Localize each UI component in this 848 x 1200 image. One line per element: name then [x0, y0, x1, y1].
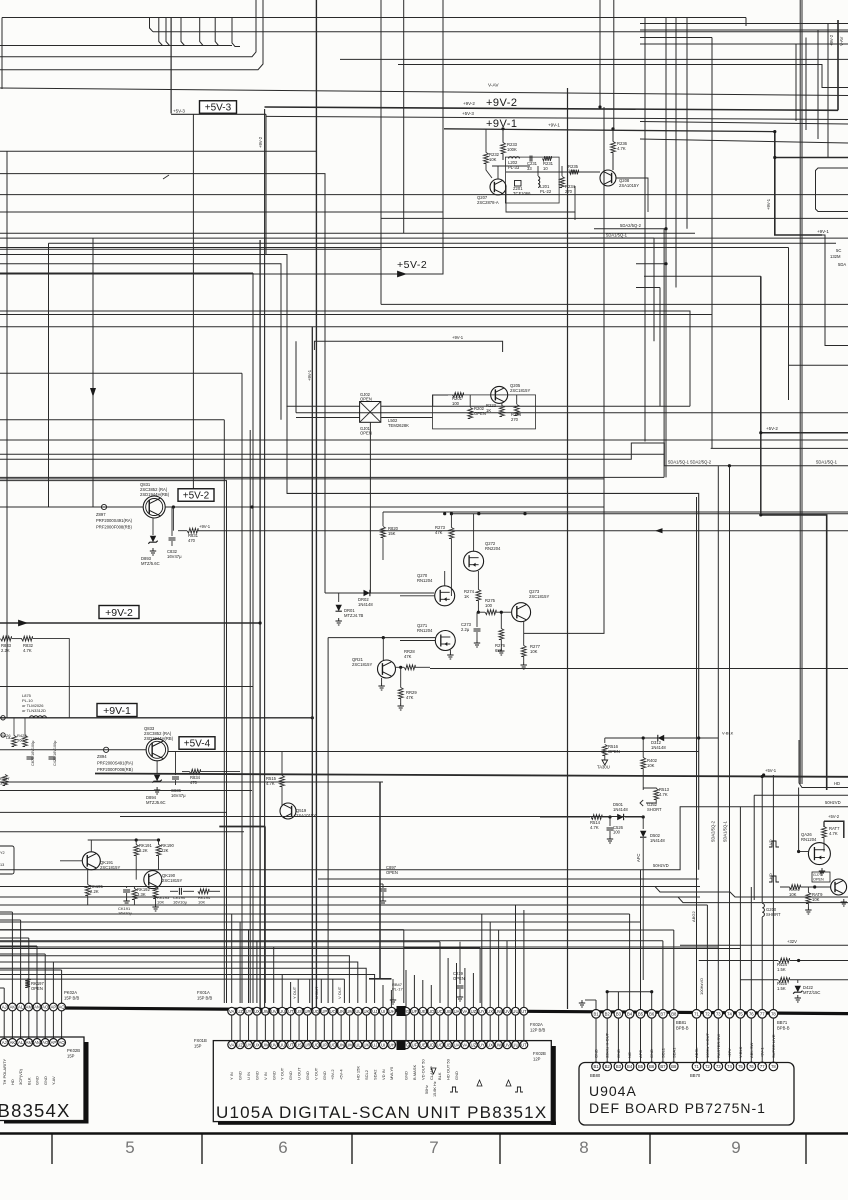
wire feed C [0, 929, 674, 931]
svg-text:71: 71 [694, 1012, 699, 1017]
svg-text:+32V: +32V [787, 939, 797, 944]
svg-text:+9V-2: +9V-2 [829, 34, 834, 46]
svg-text:4.7K: 4.7K [829, 831, 838, 836]
wire topR3 [640, 37, 712, 39]
svg-text:UY: UY [479, 1043, 485, 1048]
svg-text:UL: UL [355, 1043, 361, 1048]
svg-text:100: 100 [485, 603, 493, 608]
vertical [403, 930, 405, 1003]
resistor R424 [779, 958, 790, 963]
resistor RK190 [156, 845, 161, 856]
svg-text:UK: UK [364, 1009, 370, 1014]
svg-text:SCL1: SCL1 [660, 1047, 665, 1058]
wire top3 [340, 58, 848, 60]
svg-text:B2: B2 [605, 1012, 611, 1017]
svg-text:OPEN: OPEN [386, 870, 398, 875]
svg-text:3.9K: 3.9K [0, 781, 9, 786]
svg-text:UR: UR [304, 1009, 310, 1014]
svg-text:UY: UY [246, 1009, 252, 1014]
resistor R425 [779, 977, 790, 982]
svg-text:1N4148: 1N4148 [650, 838, 665, 843]
vertical feed [498, 930, 500, 1007]
svg-text:DEF BOARD PB7275N-1: DEF BOARD PB7275N-1 [589, 1100, 766, 1116]
resistor R516 [602, 745, 607, 756]
resistor R224 [514, 405, 519, 416]
svg-text:V-AV: V-AV [839, 37, 844, 46]
svg-text:UX: UX [487, 1009, 493, 1014]
transistor QA27 [831, 879, 847, 895]
svg-text:16V10μ: 16V10μ [173, 900, 188, 905]
wire [286, 405, 359, 407]
svg-text:U904A: U904A [589, 1083, 637, 1099]
wire [383, 511, 848, 513]
svg-text:HD OUT 50: HD OUT 50 [446, 1058, 451, 1080]
svg-text:Y OUT: Y OUT [292, 986, 297, 999]
box Q205 [433, 395, 536, 429]
+9V-2 box label [99, 606, 139, 619]
svg-text:HD: HD [834, 781, 840, 786]
svg-text:or TLN3312D: or TLN3312D [22, 708, 46, 713]
svg-text:AQ: AQ [59, 1040, 66, 1045]
VD pulse [769, 841, 779, 847]
svg-text:1N4148: 1N4148 [613, 807, 628, 812]
svg-text:SDA1: SDA1 [671, 1047, 676, 1058]
svg-text:VA: VA [229, 1043, 234, 1048]
wire hook up [0, 0, 256, 57]
osc wires [497, 166, 499, 179]
diode D502 [642, 817, 644, 829]
wire [0, 781, 383, 783]
svg-text:+5V-2: +5V-2 [828, 814, 840, 819]
vertical bb feed [673, 930, 675, 1009]
svg-text:AO: AO [42, 1005, 49, 1010]
svg-text:72: 72 [705, 1012, 710, 1017]
GJ02 GJ01 jumper block [360, 402, 381, 423]
svg-text:UR: UR [304, 1043, 310, 1048]
svg-text:UL: UL [355, 1009, 361, 1014]
svg-text:1.5K: 1.5K [777, 986, 786, 991]
wires right mid [594, 228, 666, 230]
svg-text:UD: UD [428, 1043, 434, 1048]
svg-text:AP: AP [51, 1040, 57, 1045]
svg-text:+9V-2: +9V-2 [330, 1069, 335, 1080]
svg-text:UW: UW [495, 1043, 502, 1048]
connector PK02A row [0, 1003, 8, 1011]
svg-text:GND: GND [305, 1071, 310, 1080]
svg-text:GND: GND [616, 1049, 621, 1058]
wire D312 [605, 737, 719, 739]
diode DR02 [364, 590, 370, 596]
svg-text:UT: UT [288, 1009, 294, 1014]
vertical bb feed [629, 914, 631, 1009]
vertical [252, 273, 254, 1003]
svg-text:UM: UM [346, 1043, 353, 1048]
resistor R231 [543, 156, 552, 161]
wire corner [0, 481, 227, 1003]
svg-text:V IN: V IN [263, 1072, 268, 1080]
wire [400, 595, 435, 597]
svg-text:16V10μ: 16V10μ [118, 911, 133, 916]
svg-text:B1: B1 [593, 1012, 599, 1017]
board box U904A [579, 1063, 794, 1126]
resistor R223 [500, 406, 505, 417]
ruler tick [201, 1134, 203, 1165]
rounded box right [816, 168, 848, 212]
svg-text:132M: 132M [830, 254, 841, 259]
svg-text:UK: UK [364, 1043, 370, 1048]
svg-text:C876 16V100μ: C876 16V100μ [31, 741, 35, 766]
svg-text:UI: UI [381, 1043, 385, 1048]
svg-text:AFC: AFC [638, 1050, 643, 1058]
svg-text:GND: GND [288, 1071, 293, 1080]
svg-text:16V47μ: 16V47μ [167, 554, 182, 559]
svg-text:AP: AP [51, 1005, 57, 1010]
svg-text:8.2K: 8.2K [139, 848, 148, 853]
svg-text:2SC1815Y: 2SC1815Y [162, 878, 182, 883]
svg-text:1K: 1K [464, 594, 469, 599]
diode D894 [156, 761, 158, 774]
resistor R233 [501, 143, 506, 154]
svg-text:Y-AV: Y-AV [51, 1076, 56, 1085]
svg-text:B5: B5 [638, 1012, 644, 1017]
capacitor C832 [171, 507, 173, 536]
+5V-3 vertical [170, 18, 172, 114]
svg-text:10K: 10K [789, 892, 797, 897]
wire [0, 478, 604, 480]
svg-text:76: 76 [749, 1064, 754, 1069]
svg-text:RN1204: RN1204 [417, 578, 433, 583]
+5V-2 branch [824, 821, 844, 838]
svg-text:15P: 15P [194, 1044, 202, 1049]
resistor RK193 [153, 888, 158, 899]
svg-text:UC: UC [437, 1043, 443, 1048]
wire feed B [0, 921, 641, 923]
svg-text:PRF2000S491(RA): PRF2000S491(RA) [96, 518, 133, 523]
wire [49, 242, 837, 244]
svg-text:UP: UP [321, 1043, 327, 1048]
stub hook [232, 18, 240, 47]
svg-text:2SC1815Y: 2SC1815Y [100, 865, 120, 870]
wire Q833 rail [168, 751, 699, 753]
svg-text:2SA1015Y: 2SA1015Y [619, 183, 639, 188]
transistor Q205 [491, 386, 508, 403]
ground Q271 [449, 652, 451, 655]
transistor QK191 [82, 852, 100, 870]
svg-text:UV: UV [504, 1043, 510, 1048]
wire QK rail [88, 839, 159, 841]
wire jog A [0, 887, 848, 898]
resistor R273 [449, 528, 454, 539]
svg-text:5DA2/5Q-2: 5DA2/5Q-2 [711, 820, 716, 842]
svg-text:Z894: Z894 [97, 754, 107, 759]
svg-text:BB70: BB70 [690, 1073, 701, 1078]
resistor R426 [12, 736, 17, 747]
svg-text:2SC1815Y: 2SC1815Y [352, 662, 372, 667]
svg-text:FX01B: FX01B [194, 1038, 207, 1043]
svg-text:AJ: AJ [2, 1005, 7, 1010]
svg-text:HD 15K: HD 15K [356, 1066, 361, 1080]
svg-text:78: 78 [771, 1012, 776, 1017]
svg-text:HD: HD [10, 1079, 15, 1085]
vertical [439, 942, 441, 1003]
wire [0, 419, 224, 421]
svg-text:MTZ/15C: MTZ/15C [803, 990, 820, 995]
resistor RAT4 [789, 885, 800, 890]
+9V-2 rail [265, 107, 839, 110]
svg-text:UP: UP [321, 1009, 327, 1014]
svg-text:BLK: BLK [437, 1072, 442, 1080]
svg-text:4.7K: 4.7K [23, 648, 32, 653]
svg-text:BPB-B: BPB-B [676, 1026, 689, 1031]
vertical feed [481, 914, 483, 1007]
resistor R277 [521, 646, 526, 657]
svg-text:100HzVD: 100HzVD [699, 978, 704, 995]
svg-text:UZ: UZ [237, 1009, 243, 1014]
svg-text:5DA2/5Q-2: 5DA2/5Q-2 [620, 223, 642, 228]
vertical bb70 feed [696, 497, 698, 1009]
+32V wire [680, 944, 848, 946]
svg-text:5C: 5C [836, 248, 841, 253]
svg-text:AL: AL [18, 1040, 24, 1045]
resistor RK192 [132, 889, 137, 900]
svg-text:UB: UB [445, 1009, 451, 1014]
svg-text:74: 74 [727, 1064, 732, 1069]
svg-text:72: 72 [705, 1064, 710, 1069]
transistor Q271 [435, 631, 455, 651]
svg-text:2.2K: 2.2K [90, 889, 99, 894]
svg-text:NC: NC [627, 1052, 632, 1058]
svg-text:75: 75 [738, 1064, 743, 1069]
vertical feed [489, 922, 491, 1007]
wire [0, 975, 375, 1004]
wire down from +5V-3 [265, 114, 267, 255]
svg-text:PB8354X: PB8354X [0, 1100, 71, 1121]
svg-text:US: US [296, 1009, 302, 1014]
svg-text:VD IN: VD IN [381, 1069, 386, 1080]
svg-text:+9V-2: +9V-2 [463, 101, 475, 106]
svg-text:73: 73 [716, 1064, 721, 1069]
svg-text:10K: 10K [812, 897, 820, 902]
svg-text:10K: 10K [530, 649, 538, 654]
ground QR21 [381, 683, 383, 686]
stub hook [166, 18, 170, 46]
svg-text:GND: GND [43, 1076, 48, 1085]
capacitor C273 [476, 612, 478, 627]
wire bundle line [0, 45, 232, 47]
svg-text:10K: 10K [157, 900, 164, 905]
svg-text:+9V-1: +9V-1 [766, 198, 771, 210]
svg-text:RN1204: RN1204 [417, 628, 433, 633]
svg-text:2SC2878-A: 2SC2878-A [477, 200, 499, 205]
+9V-1 rail [0, 717, 312, 719]
svg-text:VA: VA [462, 1009, 467, 1014]
svg-text:V OUT: V OUT [337, 986, 342, 999]
svg-text:100: 100 [452, 401, 460, 406]
GJ52 jumper [640, 800, 643, 806]
svg-text:5: 5 [125, 1138, 134, 1157]
wire [0, 232, 695, 234]
wire [0, 211, 443, 213]
wire Q273 out [524, 107, 604, 633]
svg-text:6: 6 [278, 1138, 287, 1157]
resistor RAT9 [806, 893, 811, 904]
stub hook [150, 18, 154, 32]
svg-text:FX02B: FX02B [533, 1051, 546, 1056]
+5V-3 wire [171, 113, 266, 115]
svg-text:MTZJ5.6C: MTZJ5.6C [146, 800, 166, 805]
Z894 [104, 747, 109, 752]
vertical [249, 430, 251, 1003]
svg-text:AK: AK [10, 1005, 16, 1010]
svg-text:3CP(VD): 3CP(VD) [18, 1068, 23, 1085]
svg-text:VD: VD [768, 839, 773, 845]
svg-text:ABCL: ABCL [694, 1047, 699, 1058]
svg-text:UV: UV [271, 1009, 277, 1014]
resistor R235 [570, 170, 579, 175]
resistor R833 [1, 636, 12, 641]
wire [381, 405, 690, 407]
wire [0, 968, 366, 1003]
wire [433, 395, 448, 406]
stub hook [215, 18, 218, 46]
connector FX01B row [231, 1015, 233, 1041]
thick bus main [65, 1008, 848, 1014]
svg-text:UD: UD [428, 1009, 434, 1014]
resistor R832 [22, 636, 33, 641]
wire [296, 412, 848, 414]
svg-text:V OUT: V OUT [313, 1067, 318, 1080]
svg-text:100: 100 [568, 169, 576, 174]
capacitor CK190 [178, 888, 180, 895]
vertical [192, 114, 194, 489]
connector PK02B row [3, 1011, 5, 1038]
svg-text:OPEN: OPEN [474, 411, 486, 416]
svg-text:OPEN: OPEN [813, 877, 824, 881]
svg-text:UT: UT [521, 1043, 527, 1048]
wire long [430, 668, 848, 670]
wire [150, 896, 700, 898]
wire topR1 [640, 23, 848, 25]
svg-text:PRF2000F008(RB): PRF2000F008(RB) [97, 767, 133, 772]
svg-text:3.3K: 3.3K [137, 892, 146, 897]
svg-text:UX: UX [487, 1043, 493, 1048]
resistor R236 [611, 142, 616, 153]
svg-text:50HzVD: 50HzVD [825, 800, 841, 805]
svg-text:GND: GND [271, 1071, 276, 1080]
wire QK191 base [60, 860, 83, 862]
svg-text:TCF1066: TCF1066 [513, 191, 531, 196]
resistor RAT7 [822, 827, 827, 838]
svg-text:UA: UA [454, 1043, 460, 1048]
svg-text:15K: 15K [388, 531, 396, 536]
svg-text:UE: UE [420, 1009, 426, 1014]
wire [0, 372, 242, 374]
svg-text:UC: UC [437, 1009, 443, 1014]
svg-text:V-AV: V-AV [488, 83, 499, 89]
wire [325, 592, 434, 594]
svg-text:UT: UT [288, 1043, 294, 1048]
vertical [750, 887, 752, 1009]
wire top1 [2, 17, 746, 19]
svg-text:15P: 15P [67, 1054, 75, 1059]
svg-text:AQ: AQ [59, 1005, 66, 1010]
svg-text:SCL2: SCL2 [364, 1069, 369, 1080]
svg-text:100K: 100K [507, 147, 517, 152]
vertical bb feed [640, 922, 642, 1009]
svg-text:UF: UF [412, 1043, 418, 1048]
svg-text:B4: B4 [627, 1064, 633, 1069]
vertical bb feed [662, 941, 664, 1009]
svg-text:7: 7 [429, 1138, 438, 1157]
svg-text:+5V-1: +5V-1 [765, 768, 777, 773]
svg-text:GND: GND [404, 1071, 409, 1080]
Z201 [515, 181, 522, 187]
svg-text:ABG2: ABG2 [691, 911, 696, 922]
svg-text:UY: UY [479, 1009, 485, 1014]
svg-text:GND: GND [649, 1049, 654, 1058]
svg-text:PL-17: PL-17 [392, 987, 403, 992]
svg-text:B6: B6 [649, 1012, 655, 1017]
svg-text:HD: HD [768, 873, 773, 879]
capacitor C836 [175, 752, 177, 776]
svg-text:+9V-1: +9V-1 [548, 123, 560, 128]
transistor QR21 [378, 660, 396, 678]
wire +9V-1 mid [198, 530, 848, 532]
wire feed A [0, 913, 630, 915]
svg-text:UX: UX [254, 1009, 260, 1014]
board box U105A [213, 1041, 551, 1122]
+5V-3 wire right [266, 116, 848, 119]
capacitor C219 [459, 942, 461, 984]
resistor RK191 [134, 845, 139, 856]
svg-text:2SC1815Y: 2SC1815Y [529, 594, 549, 599]
svg-text:UZ: UZ [471, 1009, 477, 1014]
svg-text:1.5K: 1.5K [777, 967, 786, 972]
transistor QK190 [144, 871, 162, 889]
resistor R831 [172, 507, 174, 531]
svg-text:2SD1944H(RB): 2SD1944H(RB) [140, 492, 170, 497]
svg-text:FX01A: FX01A [197, 990, 210, 995]
stray mark [163, 175, 169, 179]
stub hook [159, 18, 163, 46]
svg-text:AK: AK [10, 1040, 16, 1045]
svg-text:2SD1944H(RB): 2SD1944H(RB) [144, 736, 174, 741]
main vertical x312 [311, 327, 313, 1009]
svg-text:B4: B4 [627, 1012, 633, 1017]
vertical [295, 341, 297, 413]
main vertical 1 [264, 109, 266, 1007]
coil L202 [509, 157, 520, 159]
svg-text:71: 71 [694, 1064, 699, 1069]
svg-text:U IN: U IN [246, 1072, 251, 1080]
svg-text:B8: B8 [671, 1012, 677, 1017]
svg-text:AFC: AFC [636, 854, 641, 862]
wire [314, 341, 502, 352]
svg-text:B1: B1 [593, 1064, 599, 1069]
capacitor C231 [529, 156, 531, 162]
svg-text:+5V-3: +5V-3 [462, 111, 474, 116]
svg-text:+5V-3: +5V-3 [173, 109, 185, 114]
svg-text:+5V-3: +5V-3 [205, 103, 232, 114]
wire HD [799, 740, 848, 788]
svg-text:5DA1/5Q-1: 5DA1/5Q-1 [816, 459, 838, 464]
svg-text:4.7K: 4.7K [659, 792, 668, 797]
svg-text:C426 16V100μ: C426 16V100μ [53, 741, 57, 766]
wire [0, 686, 253, 688]
svg-text:B.MASK: B.MASK [412, 1065, 417, 1080]
svg-text:+9V-1: +9V-1 [817, 229, 829, 234]
svg-text:UU: UU [279, 1009, 285, 1014]
